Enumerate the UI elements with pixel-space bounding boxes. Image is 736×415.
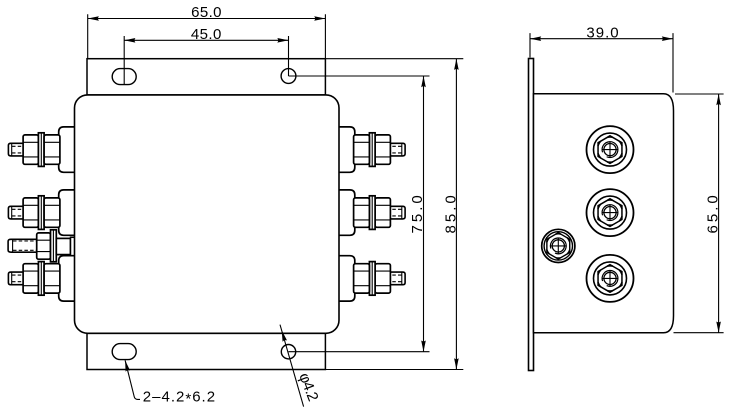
dimension 45.0 xyxy=(124,26,288,84)
svg-text:65.0: 65.0 xyxy=(191,4,222,21)
side view terminal 1 xyxy=(587,126,634,173)
side view main plate xyxy=(534,94,674,333)
ground terminal stud (left) xyxy=(8,230,76,262)
filter body outline xyxy=(75,95,340,333)
dimension 85.0 (left view overall height) xyxy=(325,59,463,370)
side view ground terminal xyxy=(542,229,575,262)
side view terminal 2 xyxy=(587,189,634,236)
svg-text:39.0: 39.0 xyxy=(586,25,619,42)
terminal L2 (left middle) xyxy=(8,190,76,235)
side view thin flange plate (edge-on) xyxy=(529,59,534,371)
terminal R3 (right bottom) xyxy=(337,256,405,301)
terminal R1 (right top) xyxy=(337,127,405,172)
dimension 75.0 (left view height between holes) xyxy=(289,76,430,352)
svg-text:2–4.2*6.2: 2–4.2*6.2 xyxy=(143,388,216,407)
terminal L1 (left top) xyxy=(8,127,76,172)
mounting slot bottom-left 4.2x6.2 xyxy=(112,344,136,360)
bottom mounting flange xyxy=(87,333,325,369)
top mounting flange xyxy=(87,59,325,95)
terminal R2 (right middle) xyxy=(337,190,405,235)
svg-text:φ4.2: φ4.2 xyxy=(295,371,321,404)
terminal L4 (left bottom) xyxy=(8,256,76,301)
side view terminal 3 xyxy=(587,255,634,302)
svg-text:65.0: 65.0 xyxy=(705,192,722,233)
svg-text:75.0: 75.0 xyxy=(409,192,426,233)
leader dia 4.2 xyxy=(279,325,321,407)
leader 2-4.2*6.2 xyxy=(123,360,216,408)
dimension 65.0 (side view height) xyxy=(674,94,724,333)
svg-text:45.0: 45.0 xyxy=(191,26,222,43)
dimension 65.0 (top) xyxy=(88,4,326,59)
mounting slot top-left 4.2x6.2 xyxy=(112,69,136,85)
mounting hole top-right dia 4.2 xyxy=(281,69,296,84)
mounting hole bottom-right dia 4.2 xyxy=(281,345,295,359)
dimension 39.0 (side view width) xyxy=(530,25,673,93)
svg-text:85.0: 85.0 xyxy=(443,192,460,233)
